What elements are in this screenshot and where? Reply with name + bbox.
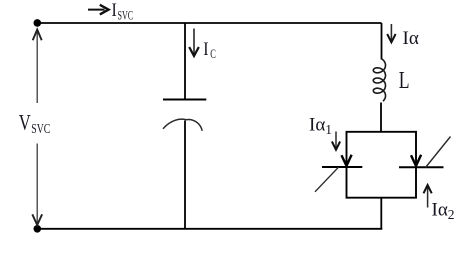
svg-text:C: C: [210, 46, 216, 61]
svg-text:L: L: [399, 68, 410, 94]
inductor L coil: [373, 59, 385, 101]
arrow Ialpha current direction: [387, 24, 395, 42]
node bottom-left input terminal: [34, 225, 42, 233]
thyristor T1 arrow (left, conducting down): [342, 155, 352, 166]
wire inductor to TCR block: [380, 103, 382, 132]
svg-text:SVC: SVC: [31, 121, 50, 136]
TCR thyristor block rectangle: [347, 132, 417, 198]
svg-text:I: I: [112, 0, 117, 21]
thyristor T2 arrow (right, conducting down): [411, 155, 421, 166]
thyristor T1 gate lead: [315, 167, 339, 192]
wire TCR block to bottom bus: [380, 198, 382, 229]
arrow Ialpha2 direction: [424, 185, 432, 208]
thyristor T1 cathode bar: [322, 166, 362, 168]
wire top bus: [38, 22, 382, 24]
arrow Vsvc down (bottom half of voltage arrow): [32, 144, 42, 226]
capacitor C top plate: [163, 99, 206, 101]
wire bottom bus: [38, 228, 383, 230]
svg-text:Iα2: Iα2: [432, 200, 455, 223]
wire capacitor branch lower: [184, 121, 186, 229]
svg-text:Iα1: Iα1: [309, 114, 332, 137]
svg-text:V: V: [19, 110, 31, 135]
capacitor C bottom curved plate: [163, 119, 202, 131]
thyristor T2 gate lead: [426, 137, 451, 168]
wire capacitor branch upper: [184, 23, 186, 100]
node top-left input terminal: [34, 19, 42, 27]
thyristor T2 cathode bar: [399, 166, 444, 168]
arrow Vsvc up (top half of voltage arrow): [33, 30, 42, 103]
wire right branch top (top bus corner down to inductor): [381, 23, 383, 60]
svg-text:Iα: Iα: [403, 28, 419, 49]
svg-text:I: I: [203, 39, 208, 60]
svg-text:SVC: SVC: [118, 7, 134, 22]
arrow Ialpha1 direction: [332, 132, 340, 150]
arrow Ic current direction: [189, 29, 199, 57]
arrow Isvc current direction: [88, 5, 109, 15]
